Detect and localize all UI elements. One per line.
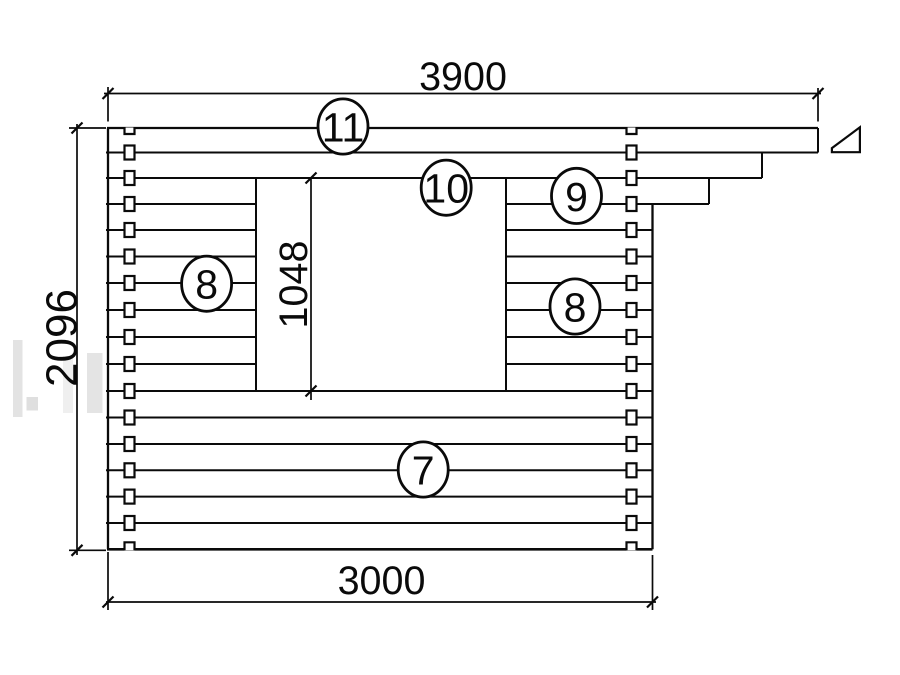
dowel square right row 2 [627,171,637,185]
part label 8 (right window planks) [550,279,600,334]
dowel notch left bottom [125,542,135,550]
watermark stem l [13,340,23,417]
svg-text:2096: 2096 [38,289,87,387]
dowel square right row 9 [627,357,637,371]
plank row line 7 right section [506,309,653,311]
dowel square right row 13 [627,463,637,477]
dowel notch right top [627,128,637,135]
dimension 1048 tick top [306,173,317,184]
dowel square right row 3 [627,197,637,211]
dowel square left row 11 [125,411,135,425]
plank row line 14 full width [106,496,653,498]
dowel square left row 7 [125,303,135,317]
wall right edge [651,204,653,549]
dowel square right row 1 [627,146,637,160]
plank row line 9 left section [106,363,256,365]
dimension 3000 tick left [103,597,114,608]
part label 7 (lower wall planks) [398,442,448,497]
plank row line 8 left section [106,336,256,338]
dowel square left row 10 [125,384,135,398]
plank 11 right end [817,128,819,153]
plank row line 15 full width [106,522,653,524]
dowel square right row 10 [627,384,637,398]
dowel notch left top [125,128,135,135]
plank row line 1 (plank 11 bottom) [106,152,818,154]
dimension 3000 extension line right [652,555,654,610]
dimension 2096 line [76,124,78,555]
dowel square left row 8 [125,330,135,344]
wall bottom edge [107,548,653,551]
plank row line 8 right section [506,336,653,338]
opening right edge [505,178,507,391]
dowel square right row 4 [627,223,637,237]
plank row line 3 right section (plank 9 bottom) [506,203,709,205]
dimension 3000 line [106,601,656,603]
dimension 1048 tick bottom [306,386,317,397]
dowel square left row 13 [125,463,135,477]
dimension 2096 extension line bottom [69,549,106,551]
dimension 3900 tick right [813,88,824,99]
plank row2 right end [761,153,763,179]
plank row line 6 left section [106,282,256,284]
dimension 1048 line [310,178,312,400]
svg-text:3900: 3900 [419,55,507,99]
watermark stem t [87,353,103,413]
svg-text:10: 10 [423,166,469,212]
dimension 2096 tick bottom [72,545,83,556]
plank 9 right end [708,178,710,204]
dowel square right row 11 [627,411,637,425]
wall left edge [107,128,109,549]
dimension 2096 tick top [72,123,83,134]
dowel square right row 8 [627,330,637,344]
dowel square right row 7 [627,303,637,317]
dowel square left row 12 [125,437,135,451]
dimension 3900 extension line left [107,87,109,122]
dowel square left row 9 [125,357,135,371]
plank row line 3 left section [106,203,256,205]
dowel square left row 5 [125,250,135,264]
svg-text:3000: 3000 [338,559,426,603]
dowel square left row 14 [125,490,135,504]
part label 10 (opening header) [421,160,471,215]
plank row line 4 left section [106,229,256,231]
plank row line 4 right section [506,229,653,231]
dimension 3000 extension line left [107,552,109,610]
dowel square left row 3 [125,197,135,211]
dowel square left row 15 [125,516,135,530]
dowel square right row 6 [627,276,637,290]
plank row line 12 full width [106,443,653,445]
watermark dot [27,397,39,411]
plank row line 13 full width [106,469,653,471]
svg-text:7: 7 [412,447,435,493]
left window section right edge [255,178,257,391]
dowel square right row 14 [627,490,637,504]
plank row line 2 [106,177,762,179]
plank row line 6 right section [506,282,653,284]
dowel notch right bottom [627,542,637,550]
plank row line 5 left section [106,256,256,258]
dowel square right row 12 [627,437,637,451]
dimension 2096 extension line top [69,127,106,129]
dowel square left row 2 [125,171,135,185]
plank row line 9 right section [506,363,653,365]
plank row line 10 (opening sill, full width) [106,390,653,392]
wall top edge (plank 11 top) [107,127,818,129]
dowel square right row 15 [627,516,637,530]
svg-text:11: 11 [322,104,365,150]
part label 11 (top plank) [318,99,368,154]
part label 8 (left window planks) [182,256,232,311]
plank row line 11 full width [106,417,653,419]
dowel square left row 4 [125,223,135,237]
svg-text:9: 9 [565,174,588,220]
plank row line 5 right section [506,256,653,258]
watermark faint stem i [63,356,73,413]
part label 9 (right long plank) [552,168,602,223]
roof pitch wedge marker [832,127,860,152]
dimension 3900 line [104,93,821,95]
dowel square right row 5 [627,250,637,264]
svg-text:1048: 1048 [272,241,316,329]
dowel square left row 1 [125,146,135,160]
dowel square left row 6 [125,276,135,290]
dimension 3900 tick left [103,88,114,99]
dimension 3900 extension line right [817,88,819,122]
svg-text:8: 8 [564,284,587,330]
svg-text:8: 8 [195,262,218,308]
plank row line 7 left section [106,309,256,311]
dimension 3000 tick right [647,597,658,608]
